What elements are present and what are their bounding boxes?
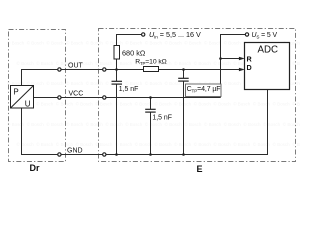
svg-text:© Bosch: © Bosch (273, 141, 291, 147)
wire capacitor C1 branch (OUT node down to GND) (116, 70, 118, 82)
wire capacitor C2 branch (VCC node down to GND) (150, 98, 152, 110)
capacitor C2 1,5 nF plates (145, 108, 156, 110)
junction node CTP on OUT line (182, 68, 185, 71)
svg-text:© Bosch: © Bosch (95, 60, 113, 66)
svg-text:© Bosch: © Bosch (115, 60, 133, 66)
watermark © Bosch grid (7, 40, 310, 148)
svg-text:© Bosch: © Bosch (283, 121, 300, 127)
svg-text:© Bosch: © Bosch (154, 141, 172, 147)
svg-text:© Bosch: © Bosch (17, 60, 35, 66)
resistor RTP (144, 67, 159, 72)
svg-text:© Bosch: © Bosch (125, 121, 143, 127)
svg-text:© Bosch: © Bosch (204, 40, 222, 46)
svg-text:© Bosch: © Bosch (194, 60, 212, 66)
terminal circle Uin (142, 33, 145, 36)
svg-text:© Bosch: © Bosch (165, 40, 183, 46)
terminal circle GND right (103, 153, 106, 156)
svg-text:GND: GND (67, 148, 83, 155)
terminal circle OUT right (103, 68, 106, 71)
wire VCC line (33, 97, 220, 99)
svg-text:© Bosch: © Bosch (224, 40, 242, 46)
wire capacitor CTP branch (signal node down to GND) (183, 70, 185, 79)
svg-text:© Bosch: © Bosch (184, 40, 202, 46)
svg-text:© Bosch: © Bosch (56, 101, 74, 107)
svg-text:© Bosch: © Bosch (194, 101, 212, 107)
junction node 680k/C1 on OUT line (115, 68, 118, 71)
svg-text:© Bosch: © Bosch (194, 141, 212, 147)
junction node C1 on GND line (115, 153, 118, 156)
svg-text:© Bosch: © Bosch (145, 80, 163, 86)
wire OUT line (sensor to ADC D) (22, 70, 242, 86)
svg-text:© Bosch: © Bosch (292, 141, 300, 147)
svg-text:© Bosch: © Bosch (273, 101, 291, 107)
svg-text:© Bosch: © Bosch (214, 141, 232, 147)
svg-text:© Bosch: © Bosch (36, 101, 54, 107)
junction node R branch on Us vertical (219, 57, 222, 60)
box E (ECU, dash-dot border) (99, 29, 296, 162)
svg-text:© Bosch: © Bosch (154, 101, 172, 107)
svg-text:© Bosch: © Bosch (174, 141, 192, 147)
svg-text:VCC: VCC (69, 90, 84, 97)
svg-text:© Bosch: © Bosch (115, 101, 133, 107)
svg-text:© Bosch: © Bosch (106, 121, 124, 127)
svg-text:1,5 nF: 1,5 nF (119, 86, 139, 93)
svg-text:© Bosch: © Bosch (214, 101, 232, 107)
capacitor CTP plates (178, 77, 189, 79)
terminal circle GND left (58, 153, 61, 156)
svg-text:© Bosch: © Bosch (115, 141, 133, 147)
terminal circle Us (245, 33, 248, 36)
svg-text:© Bosch: © Bosch (292, 60, 300, 66)
capacitor C1 1,5 nF plates (112, 80, 123, 82)
svg-text:© Bosch: © Bosch (233, 101, 251, 107)
svg-text:© Bosch: © Bosch (36, 60, 54, 66)
svg-text:© Bosch: © Bosch (106, 40, 124, 46)
junction node C2 on VCC line (149, 96, 152, 99)
wire Uin branch to 680k resistor top (117, 35, 142, 46)
svg-text:© Bosch: © Bosch (174, 60, 192, 66)
svg-text:© Bosch: © Bosch (95, 141, 113, 147)
wire Us branch (down to VCC line) (221, 35, 246, 98)
svg-text:© Bosch: © Bosch (145, 40, 163, 46)
svg-text:© Bosch: © Bosch (243, 121, 261, 127)
svg-text:© Bosch: © Bosch (56, 141, 74, 147)
arrow into D pin (239, 68, 245, 72)
terminal circle VCC left (58, 96, 61, 99)
junction node CTP on GND line (182, 153, 185, 156)
wire 680k bottom to OUT node (116, 59, 118, 70)
svg-text:© Bosch: © Bosch (76, 141, 94, 147)
junction node C2 on GND line (149, 153, 152, 156)
svg-text:© Bosch: © Bosch (204, 121, 222, 127)
svg-text:© Bosch: © Bosch (27, 40, 45, 46)
svg-text:© Bosch: © Bosch (36, 141, 54, 147)
svg-text:© Bosch: © Bosch (233, 141, 251, 147)
wire R reference line to ADC (221, 58, 242, 60)
svg-text:© Bosch: © Bosch (292, 101, 300, 107)
terminal circle OUT left (58, 68, 61, 71)
terminal circle VCC right (103, 96, 106, 99)
svg-text:© Bosch: © Bosch (135, 101, 153, 107)
svg-text:© Bosch: © Bosch (95, 101, 113, 107)
svg-text:© Bosch: © Bosch (27, 121, 45, 127)
svg-text:P: P (13, 87, 18, 96)
svg-text:© Bosch: © Bosch (86, 80, 104, 86)
svg-text:680 kΩ: 680 kΩ (122, 48, 146, 57)
svg-text:OUT: OUT (68, 63, 84, 70)
svg-text:R: R (247, 55, 253, 64)
resistor 680 kOhm (114, 46, 120, 60)
ADC box U1 (245, 43, 290, 90)
svg-text:1,5 nF: 1,5 nF (152, 114, 172, 121)
svg-text:© Bosch: © Bosch (17, 141, 35, 147)
svg-text:US = 5 V: US = 5 V (252, 32, 278, 40)
svg-text:© Bosch: © Bosch (86, 40, 104, 46)
svg-text:© Bosch: © Bosch (135, 141, 153, 147)
svg-text:D: D (247, 63, 252, 72)
svg-text:E: E (197, 164, 203, 174)
svg-text:© Bosch: © Bosch (165, 121, 183, 127)
sensor element P/U (11, 86, 34, 109)
box Dr (sensor module, dash-dot border) (9, 30, 66, 162)
svg-text:Dr: Dr (30, 163, 40, 173)
svg-text:© Bosch: © Bosch (66, 40, 84, 46)
svg-text:© Bosch: © Bosch (7, 40, 25, 46)
svg-text:© Bosch: © Bosch (214, 60, 232, 66)
svg-text:ADC: ADC (258, 45, 278, 56)
svg-text:RTP=10 kΩ: RTP=10 kΩ (135, 58, 166, 66)
svg-text:© Bosch: © Bosch (66, 80, 84, 86)
svg-text:© Bosch: © Bosch (125, 40, 143, 46)
svg-text:U: U (25, 99, 31, 108)
svg-text:© Bosch: © Bosch (184, 121, 202, 127)
svg-text:© Bosch: © Bosch (46, 40, 64, 46)
svg-text:© Bosch: © Bosch (145, 121, 163, 127)
wire GND line (sensor down, across, up to ADC bottom) (22, 90, 268, 155)
svg-text:© Bosch: © Bosch (263, 121, 281, 127)
svg-text:© Bosch: © Bosch (224, 80, 242, 86)
svg-text:© Bosch: © Bosch (224, 121, 242, 127)
svg-text:© Bosch: © Bosch (76, 101, 94, 107)
arrow into R pin (239, 57, 245, 61)
svg-text:© Bosch: © Bosch (86, 121, 104, 127)
svg-text:© Bosch: © Bosch (174, 101, 192, 107)
label box CTP value (186, 84, 222, 97)
svg-text:© Bosch: © Bosch (46, 80, 64, 86)
svg-text:© Bosch: © Bosch (66, 121, 84, 127)
svg-text:© Bosch: © Bosch (46, 121, 64, 127)
